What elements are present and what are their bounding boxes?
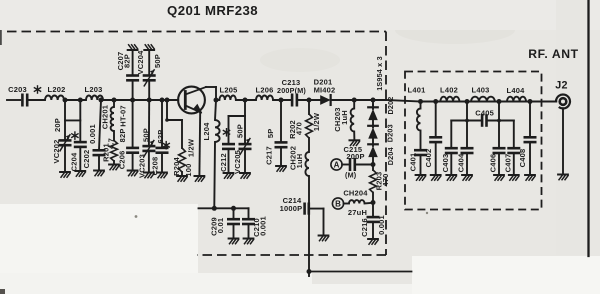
svg-text:470: 470 — [381, 173, 390, 186]
resistor R204 100 1/2W — [172, 120, 196, 177]
svg-text:62P: 62P — [156, 130, 165, 144]
svg-text:C405: C405 — [475, 109, 494, 118]
title Q201 MRF238 — [167, 3, 258, 18]
ground up (C207) — [128, 45, 138, 50]
trimmer capacitor VC202 — [52, 100, 70, 172]
svg-text:R204: R204 — [172, 157, 181, 176]
dashed boundary line (vertical, x=386) — [385, 32, 387, 256]
svg-text:50P: 50P — [141, 128, 150, 142]
svg-text:27uH: 27uH — [348, 208, 367, 217]
svg-text:C212: C212 — [219, 153, 228, 172]
capacitor C208 62P — [150, 100, 167, 175]
node CH203 tap — [352, 98, 357, 103]
svg-text:C408: C408 — [518, 149, 527, 168]
svg-text:200P(M): 200P(M) — [277, 86, 306, 95]
capacitor C401 — [408, 150, 425, 175]
svg-text:C217: C217 — [264, 146, 273, 165]
node C402 tap — [433, 99, 438, 104]
svg-text:VC204: VC204 — [136, 50, 145, 75]
svg-text:L401: L401 — [408, 86, 426, 95]
inductor L205 — [216, 86, 237, 101]
capacitor C210 0.001 — [243, 208, 267, 238]
svg-text:VC205: VC205 — [233, 150, 242, 174]
wire L206 to C213 — [273, 99, 292, 101]
wire C212/VC205 drop — [229, 100, 246, 144]
node R203/CH204/C216 junction — [371, 200, 376, 205]
inductor L403 — [471, 86, 495, 102]
svg-text:4.7: 4.7 — [107, 138, 116, 149]
trimmer capacitor VC204 50P — [136, 50, 162, 100]
wire rung VC202-C204 — [65, 119, 80, 121]
diode D202 — [368, 105, 378, 121]
node feed junction — [307, 269, 312, 274]
svg-text:C204: C204 — [69, 152, 78, 171]
label 0.001 (C216) — [377, 215, 386, 235]
svg-text:VC202: VC202 — [52, 140, 61, 164]
label D202 — [386, 97, 395, 115]
node L402/L403 junction — [465, 99, 470, 104]
node C212/VC205 tap — [243, 98, 248, 103]
wire filter bus — [421, 101, 557, 103]
ground (VC203) — [144, 173, 154, 178]
ground (C217) — [276, 166, 286, 171]
dashed boundary line (top, y=31.5) — [7, 31, 386, 33]
ground up (VC204) — [144, 45, 154, 50]
choke CH204 27uH — [343, 189, 373, 217]
capacitor C213 200P(M) — [277, 78, 306, 105]
capacitor C406 — [489, 121, 505, 176]
svg-text:100: 100 — [184, 163, 193, 176]
inductor L401 — [417, 102, 421, 151]
svg-text:J2: J2 — [555, 80, 568, 92]
svg-text:MI402: MI402 — [314, 85, 336, 94]
node base junction — [165, 98, 170, 103]
svg-text:0.001: 0.001 — [88, 124, 97, 144]
ground (C209) — [229, 239, 239, 244]
svg-text:C407: C407 — [504, 154, 513, 173]
inductor L404 — [507, 86, 526, 102]
svg-text:C216: C216 — [360, 218, 369, 237]
label C216 — [360, 218, 369, 237]
svg-text:RF. ANT: RF. ANT — [528, 47, 578, 61]
svg-text:0.001: 0.001 — [377, 215, 386, 235]
asterisk mark (L204) — [223, 129, 229, 136]
ground (C206) — [128, 171, 138, 176]
diode D201 MI402 — [314, 78, 336, 105]
wire diode stack top — [372, 100, 374, 108]
capacitor C405 — [475, 109, 494, 126]
svg-text:C404: C404 — [457, 153, 466, 172]
svg-text:Q201 MRF238: Q201 MRF238 — [167, 3, 258, 18]
svg-text:B: B — [335, 200, 341, 209]
svg-text:D202: D202 — [386, 97, 395, 115]
test point A — [331, 159, 342, 170]
node C408 tap — [528, 99, 533, 104]
ground (C403) — [446, 175, 456, 180]
svg-text:L202: L202 — [48, 85, 66, 94]
wire bottom feed line — [309, 271, 412, 273]
capacitor C214 1000P — [280, 196, 309, 213]
node C406 rail tap — [497, 119, 501, 123]
svg-text:L204: L204 — [202, 122, 211, 141]
resistor R202 470 1/2W — [288, 100, 321, 139]
svg-text:(M): (M) — [345, 171, 357, 180]
ground (C204) — [75, 171, 85, 176]
node C209 tap — [231, 206, 236, 211]
ground (C404) — [462, 175, 472, 180]
capacitor C408 — [518, 102, 535, 176]
inductor L204 — [202, 100, 220, 207]
wire main bus left — [7, 99, 20, 101]
ground (C406) — [494, 175, 504, 180]
wire dashed line to filter box — [386, 100, 421, 102]
node C206/C207 tap — [130, 98, 135, 103]
wire emitter down — [198, 111, 201, 176]
wire L203 to base node — [103, 99, 178, 101]
wire C203 to L202 — [29, 99, 45, 101]
svg-text:D203: D203 — [386, 124, 395, 142]
svg-text:C206: C206 — [117, 151, 126, 170]
choke CH203 1uH — [333, 100, 355, 140]
inductor L206 — [256, 86, 274, 101]
transistor Q201 — [178, 87, 206, 114]
ground (C407) — [509, 175, 519, 180]
ground (C216) — [368, 239, 378, 244]
capacitor C206 82P — [117, 100, 138, 171]
svg-text:1000P: 1000P — [280, 204, 303, 213]
wire sub-rail right — [487, 102, 514, 121]
svg-text:L206: L206 — [256, 86, 274, 95]
diode D204 — [368, 139, 378, 158]
ground (C210) — [244, 239, 254, 244]
capacitor C203 — [8, 85, 27, 105]
svg-text:L205: L205 — [220, 86, 238, 95]
svg-text:C401: C401 — [408, 153, 417, 172]
capacitor C216 0.001 — [368, 203, 378, 240]
ground (CH203) — [350, 140, 360, 145]
capacitor C212 — [219, 144, 234, 173]
ground (J2) — [558, 175, 568, 180]
border line (right page edge) — [587, 0, 589, 256]
svg-text:0.001: 0.001 — [259, 216, 268, 236]
capacitor C209 0.01 — [209, 208, 238, 238]
trimmer capacitor VC205 50P — [233, 116, 250, 174]
connector J2 — [556, 94, 570, 108]
capacitor C402 — [424, 102, 441, 176]
node C204 tap — [78, 98, 83, 103]
node L204-rail junction — [212, 206, 217, 211]
ground (C402) — [431, 175, 441, 180]
svg-text:1/2W: 1/2W — [312, 112, 321, 131]
svg-text:C202: C202 — [82, 150, 91, 169]
ground (VC205) — [240, 173, 250, 178]
choke CH201 HT-07 — [100, 100, 127, 131]
capacitor C407 — [504, 121, 520, 176]
asterisk mark (C208) — [163, 142, 169, 149]
dashed filter box — [405, 72, 542, 210]
node collector junction — [214, 98, 219, 103]
svg-text:D204: D204 — [386, 147, 395, 165]
inductor L202 — [45, 85, 65, 100]
ground (C208) — [157, 173, 167, 178]
label L401 — [408, 86, 426, 95]
node L401 tap — [418, 99, 423, 104]
asterisk mark (C204) — [72, 132, 78, 139]
svg-text:L203: L203 — [85, 85, 103, 94]
svg-text:1S954 x 3: 1S954 x 3 — [375, 56, 384, 91]
svg-text:A: A — [334, 161, 340, 170]
node VC203/VC204 tap — [147, 98, 152, 103]
node R202 tap — [307, 98, 312, 103]
asterisk mark (C203) — [34, 86, 40, 93]
wire L202 to L203 — [64, 99, 86, 101]
capacitor C204 — [69, 100, 85, 171]
wire C213 to D201 — [297, 99, 321, 101]
node VC202 tap — [63, 98, 68, 103]
node L403/L404 junction — [497, 99, 502, 104]
svg-text:5P: 5P — [266, 129, 275, 139]
svg-text:20P: 20P — [53, 118, 62, 132]
svg-text:1uH: 1uH — [340, 110, 349, 125]
resistor R201 4.7 — [101, 131, 117, 164]
diode D203 — [368, 120, 378, 139]
ground (R201) — [109, 165, 119, 170]
capacitor C202 — [82, 100, 104, 171]
svg-text:VC203: VC203 — [137, 154, 146, 178]
wire sub-rail left — [451, 102, 467, 121]
node C208 tap — [160, 98, 165, 103]
svg-text:1uH: 1uH — [295, 154, 304, 169]
wire C214 tap to ground — [309, 209, 324, 236]
svg-text:C403: C403 — [441, 154, 450, 173]
node diode-stack tap — [371, 98, 376, 103]
dashed boundary line (bottom, y=255) — [197, 254, 386, 256]
wire bypass rail — [199, 207, 249, 209]
svg-text:1/2W: 1/2W — [187, 138, 196, 157]
node C215-diode junction — [371, 162, 376, 167]
svg-text:CH201: CH201 — [100, 105, 109, 129]
inductor L402 — [440, 86, 459, 102]
ground (C202) — [94, 171, 104, 176]
svg-text:CH204: CH204 — [343, 189, 368, 198]
ground (VC202) — [60, 172, 70, 177]
trimmer capacitor VC203 50P — [137, 100, 154, 178]
svg-text:L404: L404 — [507, 86, 526, 95]
inductor L203 — [85, 85, 103, 100]
wire base-node rung — [165, 100, 182, 122]
svg-text:HT-07: HT-07 — [118, 105, 127, 126]
node C217 tap — [279, 98, 284, 103]
capacitor C217 5P — [264, 100, 286, 166]
ground (R204) — [177, 176, 187, 181]
ground (C214) — [319, 236, 329, 241]
capacitor C215 200P — [342, 145, 373, 180]
wire feed line down — [308, 176, 310, 276]
svg-text:C406: C406 — [489, 154, 498, 173]
wire collector — [206, 87, 216, 100]
label 1S954 x 3 — [375, 56, 384, 91]
label RF. ANT — [528, 47, 578, 61]
node C404 rail tap — [465, 119, 469, 123]
label J2 — [555, 80, 568, 92]
svg-text:82P: 82P — [123, 54, 132, 68]
wire J2 ground stem — [562, 108, 564, 174]
svg-text:200P: 200P — [346, 152, 364, 161]
svg-text:C203: C203 — [8, 85, 27, 94]
test point B — [332, 198, 343, 209]
capacitor C403 — [441, 121, 456, 176]
label D204 — [386, 147, 395, 165]
capacitor C207 82P — [116, 50, 138, 100]
node C202 tap — [99, 98, 104, 103]
svg-text:82P: 82P — [118, 128, 127, 142]
ground (C408) — [525, 175, 535, 180]
svg-text:0.01: 0.01 — [216, 218, 225, 233]
svg-text:L402: L402 — [440, 86, 458, 95]
wire sub-rail C405 left — [467, 120, 482, 122]
ground (C212) — [224, 173, 234, 178]
ground (emitter) — [195, 176, 205, 181]
choke CH202 1uH — [288, 138, 309, 176]
capacitor C404 — [457, 121, 473, 176]
svg-text:L403: L403 — [472, 86, 490, 95]
wire D201 to dashed line — [331, 99, 387, 101]
node CH201 tap — [112, 98, 117, 103]
wire D204 to junction — [372, 157, 374, 164]
svg-text:470: 470 — [294, 122, 303, 135]
wire L205 to L206 — [236, 99, 256, 101]
ground (C401) — [416, 175, 426, 180]
svg-text:50P: 50P — [235, 124, 244, 138]
label D203 — [386, 124, 395, 142]
svg-text:C402: C402 — [424, 149, 433, 168]
svg-text:50P: 50P — [153, 54, 162, 68]
resistor R203 470 — [370, 165, 390, 203]
